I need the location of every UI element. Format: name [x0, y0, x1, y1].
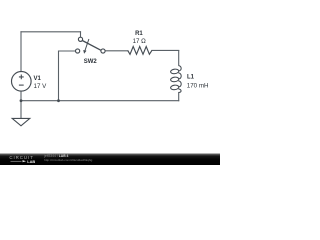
resistor R1 [128, 47, 152, 55]
svg-text:17 V: 17 V [34, 83, 48, 90]
blade [82, 41, 101, 51]
svg-text:R1: R1 [135, 31, 143, 37]
wire switch return: up and right to lower-left throw [59, 51, 76, 101]
actuation arrow head [83, 50, 86, 54]
switch SW2 [76, 37, 106, 53]
wire top horizontal [21, 31, 81, 33]
wire switch top lead [80, 32, 82, 37]
svg-text:http://circuitlab.com/c6kcd4wd: http://circuitlab.com/c6kcd4wd6kq6g [44, 158, 93, 162]
actuation arrow shaft [85, 39, 89, 51]
ground [12, 118, 30, 125]
svg-text:LAB: LAB [27, 159, 35, 164]
wire bottom horizontal [21, 100, 179, 102]
logo wire motif [11, 160, 22, 162]
wire ground stub [20, 101, 22, 119]
inductor L1 [170, 66, 181, 93]
wire switch common to resistor [105, 50, 128, 52]
common terminal right [101, 49, 105, 53]
junction node at V1/ground [20, 99, 23, 102]
wire V1 bottom lead [20, 91, 22, 101]
wire left vertical to V1 top [20, 32, 22, 72]
throw terminal top [78, 37, 82, 41]
svg-text:SW2: SW2 [84, 59, 98, 65]
junction node at switch return [57, 99, 60, 102]
svg-text:V1: V1 [34, 76, 42, 82]
svg-text:170 mH: 170 mH [187, 83, 209, 90]
wire resistor right lead to corner [152, 49, 179, 51]
voltage source V1 [11, 72, 31, 92]
throw terminal lower-left [76, 49, 80, 53]
svg-text:L1: L1 [187, 74, 195, 80]
svg-text:17 Ω: 17 Ω [133, 38, 147, 45]
wire right vertical to inductor top [178, 51, 180, 66]
wire inductor bottom lead [178, 93, 180, 101]
